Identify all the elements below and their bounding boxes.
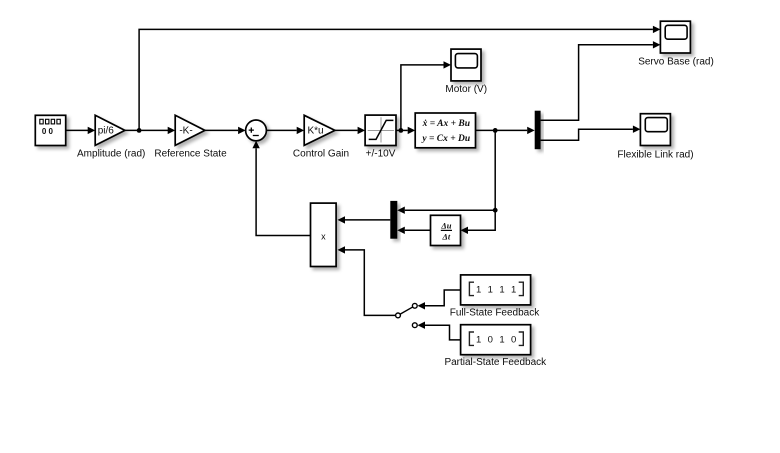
svg-text:Control Gain: Control Gain: [293, 148, 349, 159]
wire feedback junction down to lower junction: [494, 130, 496, 210]
gain Amplitude (rad) pi/6: [77, 115, 145, 159]
scope Servo Base (rad): [638, 21, 714, 67]
svg-text:1: 1: [499, 285, 504, 296]
svg-text:-K-: -K-: [179, 125, 192, 136]
derivative block: [431, 215, 461, 245]
multiply block x: [311, 203, 337, 266]
wire saturation to State-Space: [396, 127, 415, 134]
state-space block: [415, 113, 475, 148]
svg-text:Amplitude (rad): Amplitude (rad): [77, 148, 145, 159]
wire Full-State constant to switch upper input: [418, 290, 461, 310]
svg-text:1: 1: [488, 285, 493, 296]
manual switch: [396, 303, 418, 327]
wire Amplitude gain to Reference State gain: [125, 127, 175, 134]
svg-text:Motor (V): Motor (V): [445, 84, 487, 95]
wire lower junction down to derivative input: [461, 210, 496, 234]
source block Repeating Sequence Stair: [35, 115, 65, 145]
sum block: [246, 120, 267, 141]
wire derivative to mux in2: [397, 227, 430, 234]
svg-text:0: 0: [488, 334, 493, 345]
svg-text:y = Cx + Du: y = Cx + Du: [421, 134, 470, 144]
svg-text:pi/6: pi/6: [98, 125, 115, 136]
svg-text:+/-10V: +/-10V: [366, 148, 396, 159]
svg-text:0 0: 0 0: [42, 127, 54, 136]
svg-text:1: 1: [476, 334, 481, 345]
constant Partial-State Feedback [1 0 1 0]: [444, 325, 547, 369]
wire Control Gain to saturation: [335, 127, 365, 134]
svg-text:x: x: [321, 232, 326, 242]
saturation block +/-10V: [365, 115, 396, 159]
wire mux to multiply in1: [338, 216, 391, 223]
wire demux out1 to Servo Base scope port 2: [541, 41, 661, 120]
wire lower junction to mux in1: [397, 207, 495, 214]
svg-text:1: 1: [476, 285, 481, 296]
scope Motor (V): [445, 49, 487, 95]
svg-text:ẋ = Ax + Bu: ẋ = Ax + Bu: [422, 119, 470, 129]
wire Partial-State constant to switch lower input: [418, 322, 461, 340]
node junction after saturation: [399, 128, 404, 133]
svg-text:Flexible Link rad): Flexible Link rad): [617, 150, 693, 161]
wire feedback junction up to Servo Base scope port 1: [139, 26, 660, 131]
wire State-Space to demux: [476, 127, 535, 134]
scope Flexible Link rad): [617, 114, 693, 161]
svg-text:1: 1: [511, 285, 516, 296]
svg-text:Full-State Feedback: Full-State Feedback: [450, 307, 540, 318]
svg-text:Δu: Δu: [440, 220, 451, 230]
node lower junction: [493, 208, 498, 213]
node junction after Amplitude gain: [137, 128, 142, 133]
wire demux out2 to Flexible Link scope: [541, 126, 641, 141]
svg-text:Reference State: Reference State: [154, 148, 227, 159]
wire junction up to Motor scope: [401, 61, 451, 130]
wire manual switch to multiply in2: [338, 246, 396, 315]
gain Reference State -K-: [154, 115, 227, 159]
svg-text:0: 0: [511, 334, 516, 345]
svg-text:K*u: K*u: [307, 125, 323, 136]
wire source to Amplitude gain: [66, 127, 95, 134]
gain Control Gain K*u: [293, 115, 349, 159]
svg-text:Partial-State Feedback: Partial-State Feedback: [444, 357, 547, 368]
svg-text:Δt: Δt: [442, 232, 451, 242]
svg-text:Servo Base (rad): Servo Base (rad): [638, 57, 714, 68]
node junction after State-Space: [493, 128, 498, 133]
wire Reference State gain to sum: [205, 127, 246, 134]
constant Full-State Feedback [1 1 1 1]: [450, 275, 540, 319]
wire multiply out to sum bottom input: [252, 141, 310, 236]
svg-text:1: 1: [499, 334, 504, 345]
mux: [390, 201, 397, 239]
demux: [535, 111, 541, 150]
wire sum to Control Gain: [266, 127, 304, 134]
